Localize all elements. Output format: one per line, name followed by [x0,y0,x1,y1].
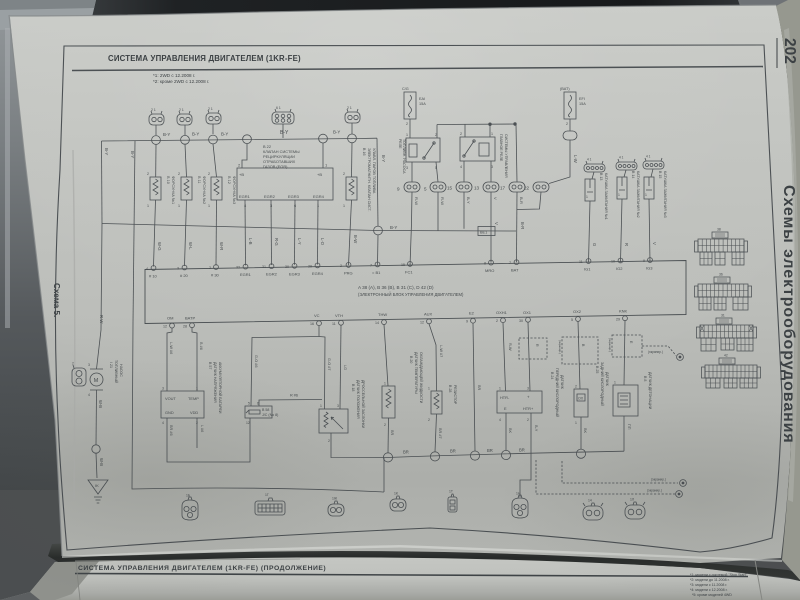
sensor B57 (battery voltage sensor) box [161,387,204,426]
svg-text:2: 2 [343,172,345,176]
ECU bottom pin THW [375,312,387,325]
connector oval 22 [524,182,549,192]
wire injector B11 to ECU #20 [185,200,187,266]
svg-text:ЗАДНИЙ КИСЛОРОДНЫЙ: ЗАДНИЙ КИСЛОРОДНЫЙ [600,362,604,406]
svg-text:PRG: PRG [344,270,353,275]
svg-text:5: 5 [424,187,427,192]
wire VC branch to TPS pin1 [319,337,325,410]
svg-text:1К: 1К [394,492,398,496]
svg-text:R-W: R-W [414,197,419,205]
svg-text:B-W: B-W [353,235,358,243]
right fore-edge of book (stacked pages) [776,0,800,580]
ignition coil B15 [644,177,654,199]
wire B28 to ground bus [435,414,437,452]
wire B57 VDD stub [196,418,198,448]
svg-text:EAI: EAI [419,97,425,101]
wire injector B10 to ECU #10 [154,200,156,267]
svg-text:5: 5 [571,318,573,322]
svg-text:2: 2 [575,385,577,389]
svg-text:BR: BR [477,385,481,391]
svg-text:EGR4: EGR4 [313,194,325,199]
connector J3 (injector 3 harness connector) [206,107,221,124]
wire oval 15 down to BE1 line [463,192,465,229]
ignition coil B13 [585,179,595,201]
svg-text:ОХЛАЖДАЮЩЕЙ ЖИДКОСТИ: ОХЛАЖДАЮЩЕЙ ЖИДКОСТИ [419,352,423,404]
svg-text:R-W: R-W [99,315,104,323]
wire junction to ECU +B1 [377,235,380,265]
injector B11 [178,172,192,208]
connector oval 9 [397,182,420,192]
svg-text:L-W: L-W [573,155,578,163]
svg-text:В 18: В 18 [351,384,355,391]
ECU pin IG2 [611,258,623,271]
svg-text:EGR3: EGR3 [289,271,301,276]
svg-text:1: 1 [147,204,149,208]
svg-text:36: 36 [719,273,723,277]
wire oval 5 down to BE1 [437,192,439,231]
svg-text:4 1: 4 1 [587,158,592,162]
node N1 on B-Y bus [152,136,161,145]
injector B10 [147,172,161,208]
svg-text:КАТУШКА ЗАЖИГАНИЯ №2: КАТУШКА ЗАЖИГАНИЯ №2 [636,171,640,218]
rear oxygen sensor B25 [574,385,588,426]
svg-text:ФОРСУНКА №2: ФОРСУНКА №2 [202,176,206,204]
ECU connector view C [697,314,757,352]
svg-text:16: 16 [310,322,314,326]
svg-text:1Г: 1Г [265,493,269,497]
wire EGR4 to ECU [317,200,320,265]
svg-text:2: 2 [328,439,330,443]
knock sensor B8 [613,381,638,417]
svg-text:B-Y: B-Y [390,225,397,230]
svg-text:B-Y: B-Y [192,132,199,137]
wire TPS pin2 to ground bus [331,433,384,458]
svg-text:(экранир.): (экранир.) [558,340,562,354]
wire E01 ground return long run [132,324,384,493]
wire stub J1 to bus node [155,125,157,135]
svg-text:1: 1 [178,204,180,208]
node N6 on B-Y bus [348,134,357,143]
throttle position sensor B18 [319,404,348,443]
svg-text:4: 4 [88,393,90,397]
svg-text:2: 2 [72,362,74,366]
svg-text:2 1: 2 1 [179,108,184,112]
svg-text:+: + [527,395,530,400]
svg-text:В 14: В 14 [631,171,635,178]
svg-text:12: 12 [420,320,424,324]
wire B57 TEMP to ECU BATP [192,328,197,391]
wire oval 17 to ECU BAT [516,192,519,262]
svg-text:HTR+: HTR+ [523,406,534,411]
shield ground SG1 [677,354,684,361]
top-left light wedge (background object) [0,0,96,30]
relay R1 (fuel pump relay) [406,133,440,170]
wire relay feed bus [437,123,516,126]
node N2 on B-Y bus [181,135,190,144]
svg-text:ФОРСУНКА №1: ФОРСУНКА №1 [171,176,175,204]
wire EGR1 to ECU [244,200,247,265]
svg-text:Схемы электрооборудования: Схемы электрооборудования [780,185,797,444]
node ground bus G-N2 [430,452,439,461]
svg-text:# 30: # 30 [211,273,220,278]
ECU connector view D [702,354,761,389]
svg-text:(экранир.): (экранир.) [648,350,663,354]
wire knock sensor to bus end [623,416,625,451]
svg-text:V: V [652,242,657,245]
svg-text:BR: BR [450,449,456,454]
svg-text:1Л: 1Л [630,498,634,502]
svg-text:30: 30 [285,265,289,269]
svg-text:1: 1 [320,404,322,408]
relay R2 (main EFI relay) [460,132,495,169]
svg-text:ГЛАВНОЕ РЕЛЕ: ГЛАВНОЕ РЕЛЕ [499,134,503,162]
top-right gray wedge [738,0,800,22]
node junction on B-Y feed [374,226,383,235]
ECU bottom pin OX2 [571,309,582,322]
svg-text:В 57: В 57 [208,362,212,369]
wire bus N6 to purge VSV [351,143,354,177]
next page darker left corner [30,560,100,600]
node relay bus dot 2 [514,123,517,126]
wire fuse EAI to relay R1 [409,119,411,138]
svg-text:*1: 2WD с 12.2008 г.: *1: 2WD с 12.2008 г. [153,73,195,78]
ECU pin BAT [509,260,519,273]
svg-text:M: M [94,378,99,384]
svg-text:2: 2 [208,172,210,176]
svg-text:IK: IK [95,483,99,488]
svg-text:VTH: VTH [335,313,343,318]
svg-text:V: V [493,197,498,200]
wire coil B14 to ECU IG2 [621,199,623,262]
svg-text:30: 30 [519,319,523,323]
wire B-Y supply bus [102,138,378,141]
svg-text:4: 4 [146,267,148,271]
svg-text:15A: 15A [419,102,426,106]
gutter shadow between pages [48,538,800,581]
svg-text:КАТУШКА ЗАЖИГАНИЯ №3: КАТУШКА ЗАЖИГАНИЯ №3 [663,171,667,218]
wire purge VSV to ECU PRG [349,200,352,265]
svg-text:+B: +B [239,172,244,177]
shield box on OX2 wire [562,337,598,364]
wire front O2 E to ground bus [505,413,507,450]
svg-text:15: 15 [401,263,405,267]
wire ECU E2 to ground bus [473,323,475,451]
ECU pin IG1 [579,259,591,272]
wire bus N5 to EGR +B right [322,143,324,168]
bottom dark area under page [0,490,800,600]
wire bus to relay R2 pin1 [489,124,491,137]
wire long B-Y/R-W horizontal run [102,224,516,232]
wire EGR2 to ECU [270,200,273,265]
svg-text:B-Y: B-Y [163,132,170,137]
svg-text:L-W #6: L-W #6 [169,342,173,354]
svg-text:31: 31 [721,314,725,318]
wire ECU AUX to B28 [429,324,437,391]
svg-text:G-O #7: G-O #7 [327,358,331,370]
svg-text:BATP: BATP [185,315,195,320]
purge VSV B16 [343,172,357,208]
wire bus to injector B11 [185,144,187,177]
svg-text:B-Y: B-Y [104,148,109,155]
ground G1 (body ground triangle) [88,480,108,503]
shield box on KNK wire [612,335,642,357]
svg-text:OXH1: OXH1 [496,310,508,315]
svg-text:OX: OX [578,397,584,401]
coil connector C1 (4-pin) [584,158,605,173]
junction connector B58 J/C [245,402,272,426]
wire EFI feed to oval 22 [517,192,542,210]
page shading bottom-left [0,0,1,1]
injector B12 [208,172,222,208]
svg-text:R-W: R-W [440,197,445,205]
ECU bottom pin VC [310,313,321,326]
svg-text:2 1: 2 1 [151,108,156,112]
svg-text:В 25: В 25 [595,366,599,373]
wire bus to injector B12 [213,144,217,177]
wire injector B12 to ECU #30 [215,200,218,266]
wire bus to relay R2 pin2 [464,124,466,137]
svg-text:J/C (No 8): J/C (No 8) [262,413,278,417]
fuse EAI 15A [402,87,426,126]
connector oval 15 [447,182,472,192]
svg-text:ТОПЛИВН. НАСОСА: ТОПЛИВН. НАСОСА [402,139,406,174]
svg-text:АККУМУЛЯТОРНОЙ БАТАРЕИ: АККУМУЛЯТОРНОЙ БАТАРЕИ [218,362,222,414]
svg-text:В 24: В 24 [550,372,554,379]
svg-text:ТОПЛИВНЫЙ: ТОПЛИВНЫЙ [114,360,118,384]
svg-text:G-O #6: G-O #6 [254,355,258,367]
wire stub J2 to bus node [184,125,186,135]
svg-text:R #6: R #6 [290,394,298,398]
svg-text:BR: BR [487,448,493,453]
svg-text:15A: 15A [579,102,586,106]
svg-text:B-Y: B-Y [280,130,289,136]
wire EGR3 to ECU [294,200,297,265]
svg-text:2: 2 [178,172,180,176]
svg-text:2: 2 [340,264,342,268]
page crease [73,150,75,500]
svg-text:4 1: 4 1 [619,156,624,160]
connector inline below EFI fuse [563,131,577,140]
svg-text:BK: BK [583,428,587,434]
svg-text:9: 9 [643,259,645,263]
svg-text:BAT: BAT [511,268,519,273]
svg-text:EGR4: EGR4 [312,271,324,276]
svg-text:R: R [624,243,629,246]
svg-text:BR: BR [390,430,394,436]
wire shield lower run 1 [562,461,678,483]
svg-text:(BAT): (BAT) [560,87,570,91]
svg-text:2: 2 [209,266,211,270]
svg-text:B-Y: B-Y [466,197,471,204]
svg-text:B-R: B-R [519,197,524,204]
wire coil conn C1 to coil B13 [592,172,594,179]
svg-text:BR: BR [519,447,525,452]
svg-text:29: 29 [616,317,620,321]
svg-text:2: 2 [566,122,568,126]
shield ground SG2 [680,480,687,487]
svg-text:3: 3 [527,387,529,391]
svg-text:ДРОССЕЛЬНОЙ ЗАСЛОНКИ: ДРОССЕЛЬНОЙ ЗАСЛОНКИ [361,380,365,429]
ECU pin EGR2 [262,264,278,277]
svg-text:9: 9 [397,187,400,192]
ECU pin #10 [146,266,158,279]
svg-text:ПП: ПП [627,424,631,430]
op ECU A38/B36/B31/D42 main box [145,261,686,324]
svg-text:1: 1 [428,387,430,391]
svg-text:1Ж: 1Ж [332,497,338,501]
svg-text:KNK: KNK [619,308,628,313]
svg-text:ДАТЧИК: ДАТЧИК [605,372,609,387]
ECU pin #20 [177,265,189,278]
wire B57 GND loop to junction [167,418,250,462]
svg-text:2: 2 [147,172,149,176]
wire sensor ground bus [384,451,624,457]
svg-text:РЕЗИСТОР: РЕЗИСТОР [453,385,457,405]
svg-text:A 38 (A), B 36 (B), B 31 (C),: A 38 (A), B 36 (B), B 31 (C), D 42 (D) [358,285,434,290]
svg-text:7: 7 [509,261,511,265]
svg-text:*2: кроме 2WD с 12.2008 г.: *2: кроме 2WD с 12.2008 г. [153,79,209,84]
svg-text:*3: модели с 11.2008 г.: *3: модели с 11.2008 г. [690,583,727,587]
svg-text:ФОРСУНКА №3: ФОРСУНКА №3 [232,176,236,204]
svg-text:VC: VC [314,313,320,318]
svg-text:НАСОС: НАСОС [119,364,123,377]
ECU bottom pin E2 [466,311,475,324]
svg-text:W-B: W-B [98,400,103,408]
svg-text:В 12: В 12 [227,176,231,184]
svg-text:(ЭЛЕКТРОННЫЙ БЛОК УПРАВЛЕНИЯ Д: (ЭЛЕКТРОННЫЙ БЛОК УПРАВЛЕНИЯ ДВИГАТЕЛЕМ) [358,292,464,297]
svg-text:38: 38 [717,228,721,232]
connector K6 bottom row [512,492,528,519]
wire oval 9 to FC1 horizontal junction [410,192,412,266]
svg-text:ДАТЧИК ДЕТОНАЦИИ: ДАТЧИК ДЕТОНАЦИИ [648,372,652,410]
wire coil B15 to ECU IG3 [649,199,650,262]
wire B-Y left drop to pump junction [101,141,104,224]
ECU pin #30 [209,265,220,278]
svg-text:C/G: C/G [402,87,409,91]
svg-text:4: 4 [499,418,501,422]
svg-text:LG: LG [343,365,347,370]
svg-text:TEMP: TEMP [188,396,199,401]
svg-text:R-W: R-W [508,343,512,351]
svg-text:12: 12 [163,325,167,329]
svg-text:СИСТЕМА УПРАВЛЕНИЯ ДВИГАТЕЛЕМ: СИСТЕМА УПРАВЛЕНИЯ ДВИГАТЕЛЕМ (1KR-FE) [108,54,301,63]
svg-text:VDD: VDD [190,410,198,415]
svg-text:W-B: W-B [99,458,104,466]
title rule under header [72,67,763,71]
svg-text:10: 10 [611,260,615,264]
svg-text:I 21: I 21 [109,362,113,368]
svg-text:E: E [504,406,507,411]
svg-text:BR #7: BR #7 [438,428,442,439]
wire relay R1 pin5 to oval 5 [436,162,438,182]
wire oval 13 to ECU MRO [490,192,492,263]
svg-text:W-L: W-L [188,242,193,250]
svg-text:2: 2 [460,132,462,136]
page bottom edge highlight [62,545,782,562]
svg-text:СИСТЕМЫ УПРАВЛЕНИЯ: СИСТЕМЫ УПРАВЛЕНИЯ [504,134,508,178]
svg-text:EGR3: EGR3 [288,194,300,199]
svg-text:W-G: W-G [157,242,162,251]
connector oval 13 [474,182,499,192]
connector J2 (injector 2 harness connector) [177,108,192,125]
svg-text:AUX: AUX [424,311,433,316]
svg-text:202: 202 [781,38,798,64]
left highlight strip [5,28,10,328]
svg-text:4: 4 [460,165,462,169]
connector K2 bottom row (wide) [255,493,285,515]
connector inline on pump ground wire [92,445,100,453]
ECU bottom pin VTH [332,313,343,326]
wire B58 pin6 to TPS run [259,400,322,407]
node ground bus G-N3 [470,451,479,460]
coil connector C2 (4-pin) [616,156,637,171]
wire inline connector to ground [96,453,97,478]
svg-text:IG3: IG3 [646,266,653,271]
svg-text:3: 3 [88,363,90,367]
node N5 on B-Y bus [319,134,328,143]
svg-text:11: 11 [332,322,336,326]
node relay bus dot 1 [489,123,492,126]
svg-text:L-W #7: L-W #7 [439,345,443,357]
svg-text:1: 1 [575,421,577,425]
svg-text:(экранир.): (экранир.) [647,489,662,493]
junction box BE1 [478,227,495,236]
svg-text:1: 1 [343,204,345,208]
coil connector C3 (4-pin) [643,155,664,170]
svg-text:*2: модели до 11.2008 г.: *2: модели до 11.2008 г. [690,578,730,582]
svg-text:В 15: В 15 [658,171,662,178]
svg-text:ГАЗОВ (EGR): ГАЗОВ (EGR) [263,164,288,169]
connector J5 (purge VSV harness connector) [345,106,360,123]
svg-text:17: 17 [500,186,506,191]
svg-text:B-Y: B-Y [381,155,386,162]
svg-text:3: 3 [177,267,179,271]
ECU bottom pin BATP [183,315,195,328]
connector K4 bottom row [390,492,406,512]
svg-text:9: 9 [466,320,468,324]
ECU pin MRO [484,260,494,273]
svg-text:3: 3 [162,387,164,391]
svg-text:R: R [535,344,539,347]
svg-text:1: 1 [499,387,501,391]
svg-text:1Н: 1Н [516,492,521,496]
svg-text:СИСТЕМА УПРАВЛЕНИЯ ДВИГАТЕЛЕМ: СИСТЕМА УПРАВЛЕНИЯ ДВИГАТЕЛЕМ (1KR-FE) (… [78,565,326,572]
svg-text:ДАТЧИК НАПРЯЖЕНИЯ: ДАТЧИК НАПРЯЖЕНИЯ [213,362,217,403]
svg-text:EGR1: EGR1 [240,272,252,277]
dark background top band [0,0,800,30]
svg-text:В 58: В 58 [262,408,269,412]
resistor B28 [428,387,442,423]
wire coil conn C2 to coil B14 [624,170,626,177]
ECU bottom pin OM [163,316,174,329]
svg-text:B-R: B-R [520,222,525,229]
svg-text:1: 1 [208,204,210,208]
svg-text:В #6: В #6 [199,342,203,350]
ECU pin FC1 [401,262,413,275]
ignition coil B14 [617,177,627,199]
svg-text:11: 11 [579,260,583,264]
wire ECU VC down [318,326,320,337]
shield box on OX1 wire [519,338,547,359]
svg-text:2: 2 [406,122,408,126]
svg-text:THW: THW [378,312,387,317]
connector oval 5 [424,182,446,192]
svg-text:ЭЛЕКТРОМАГНИТН. КЛАПАН СИСТ.: ЭЛЕКТРОМАГНИТН. КЛАПАН СИСТ. [367,148,371,211]
svg-text:В 11: В 11 [197,176,201,184]
EGR valve B22 box [237,168,333,200]
connector K8 bottom row [625,498,645,520]
svg-text:1Т: 1Т [449,490,453,494]
